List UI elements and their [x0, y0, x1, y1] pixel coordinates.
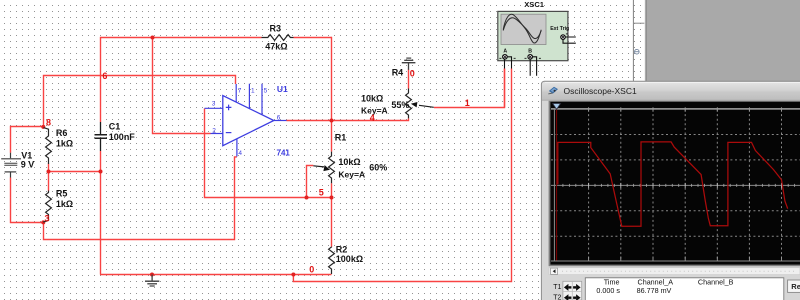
svg-text:10kΩ: 10kΩ — [338, 157, 360, 167]
resistor R6 — [44, 128, 52, 164]
svg-text:Ext Trig: Ext Trig — [550, 26, 569, 32]
svg-text:A: A — [503, 49, 507, 55]
svg-text:R4: R4 — [392, 67, 404, 77]
wire ground bus net 0 — [100, 274, 332, 276]
svg-text:10kΩ: 10kΩ — [361, 93, 383, 103]
resistor R2 — [329, 247, 335, 274]
svg-text:0.000 s: 0.000 s — [596, 286, 620, 295]
wire battery V1 branch — [11, 127, 44, 223]
svg-text:Channel_B: Channel_B — [698, 278, 734, 287]
svg-text:T1: T1 — [553, 284, 561, 291]
battery V1 — [10, 153, 12, 159]
T1 right arrow — [576, 284, 581, 291]
junction R1 wiper on net 5 — [305, 196, 309, 200]
svg-text:R1: R1 — [335, 132, 347, 142]
scope screen sunken frame — [549, 101, 800, 266]
wire R1 wiper — [307, 166, 314, 198]
window title icon — [548, 87, 558, 94]
svg-text:Re: Re — [791, 282, 800, 291]
svg-text:0: 0 — [410, 69, 415, 79]
splitter line in right margin — [634, 23, 645, 24]
wire node 2 tap to C1 column — [49, 171, 101, 173]
junction net 5 at R1/R2 column — [330, 196, 334, 200]
scope screen black area — [550, 102, 800, 265]
svg-text:86.778 mV: 86.778 mV — [637, 286, 672, 295]
application gray background right of sheet — [647, 0, 800, 300]
junction node R3/C1/pin2 — [151, 36, 155, 40]
scope grid — [551, 107, 800, 261]
svg-text:1kΩ: 1kΩ — [56, 139, 73, 149]
T1 cursor marker — [553, 104, 561, 110]
svg-text:7: 7 — [238, 87, 242, 94]
svg-text:55%: 55% — [391, 100, 409, 110]
wire C1 vertical upper segment — [100, 37, 102, 122]
svg-text:C1: C1 — [109, 121, 121, 131]
wire net 5 from pin 3 to R1/R2 tap — [205, 109, 332, 198]
measurement panel — [585, 278, 784, 300]
svg-text:3: 3 — [45, 213, 50, 223]
window title bar — [542, 82, 800, 101]
center axis with ticks — [551, 184, 800, 186]
horizontal scrollbar of scope screen — [549, 268, 800, 275]
svg-text:R3: R3 — [270, 23, 282, 33]
resistor R3 — [262, 35, 294, 41]
XSC1 icon sine trace B — [503, 18, 541, 39]
T2 left arrow — [564, 294, 569, 300]
resistor R5 — [43, 191, 51, 223]
capacitor C1 — [100, 122, 102, 151]
oscilloscope window frame — [541, 81, 800, 300]
svg-text:0: 0 — [309, 265, 314, 275]
svg-text:XSC1: XSC1 — [524, 0, 545, 9]
sheet edge shading — [644, 0, 645, 300]
wire output column R3 right down through R1 R2 — [331, 37, 333, 247]
svg-text:100kΩ: 100kΩ — [336, 254, 363, 264]
wire output net 4 — [287, 118, 409, 120]
ground symbol above R4 (flipped) — [408, 63, 410, 70]
junction R6 bottom tap — [47, 170, 51, 174]
svg-text:R5: R5 — [56, 188, 68, 198]
svg-text:1kΩ: 1kΩ — [56, 199, 73, 209]
svg-text:5: 5 — [319, 187, 324, 197]
collapse handle glyph — [635, 49, 640, 54]
T1 cursor line — [556, 110, 558, 261]
svg-text:5: 5 — [264, 87, 268, 94]
svg-text:6: 6 — [102, 71, 107, 81]
op-amp U1 741 — [223, 96, 274, 146]
svg-text:T2: T2 — [553, 294, 561, 300]
oscilloscope XSC1 icon body — [498, 11, 568, 60]
svg-text:3: 3 — [212, 101, 216, 108]
svg-text:1: 1 — [465, 98, 470, 108]
wire C1 vertical lower segment down to ground bus — [100, 151, 102, 275]
T1 left arrow — [564, 284, 569, 291]
T2 right arrow — [576, 294, 581, 300]
wire between R6 and R5 — [48, 164, 50, 191]
junction node 8 — [41, 125, 45, 129]
potentiometer R4 — [406, 89, 412, 119]
Ext Trig terminal — [561, 35, 566, 40]
svg-text:1: 1 — [251, 87, 255, 94]
wire R3 right to output column — [294, 37, 332, 39]
svg-text:Key=A: Key=A — [338, 169, 365, 179]
svg-text:741: 741 — [277, 149, 291, 158]
XSC1 icon sine trace A — [503, 14, 541, 43]
Reverse button (clipped) — [788, 280, 800, 292]
junction scope return on bus — [291, 273, 295, 277]
svg-text:Oscilloscope-XSC1: Oscilloscope-XSC1 — [564, 86, 637, 96]
channel A waveform trace — [558, 142, 788, 226]
wire node 3 to op-amp pin 4 — [44, 157, 237, 240]
svg-text:47kΩ: 47kΩ — [265, 42, 287, 52]
svg-text:4: 4 — [238, 150, 242, 157]
wire scope A- return to bus — [293, 69, 511, 282]
wire net 6 horizontal to op-amp pin 7 — [44, 76, 236, 128]
wire net 1 R4 wiper to scope input A — [434, 69, 505, 108]
svg-text:9 V: 9 V — [21, 160, 35, 170]
svg-text:B: B — [528, 49, 532, 55]
svg-text:2: 2 — [212, 127, 216, 134]
wire R4 top to ground — [408, 70, 410, 89]
svg-text:100nF: 100nF — [109, 132, 136, 142]
sheet border vertical line — [633, 0, 634, 300]
T1 T2 control cluster — [563, 281, 582, 300]
ground symbol on bus — [151, 275, 153, 282]
svg-text:4: 4 — [370, 113, 375, 123]
wire scope A+ red lead — [504, 69, 506, 108]
svg-text:R2: R2 — [336, 244, 348, 254]
potentiometer R1 — [329, 152, 335, 184]
wire inverting input from R3/C1 node to pin 2 — [153, 37, 211, 134]
wire top net from C1 to R3 left — [101, 37, 262, 39]
svg-text:8: 8 — [46, 117, 51, 127]
svg-text:6: 6 — [277, 114, 281, 121]
junction ground on bus — [150, 273, 154, 277]
junction output node 4 — [330, 119, 334, 123]
XSC1 icon screen — [501, 14, 546, 44]
svg-text:R6: R6 — [56, 128, 68, 138]
svg-text:60%: 60% — [369, 162, 387, 172]
junction C1 mid tap — [99, 170, 103, 174]
junction node 3 — [41, 220, 45, 224]
svg-text:U1: U1 — [277, 84, 288, 94]
